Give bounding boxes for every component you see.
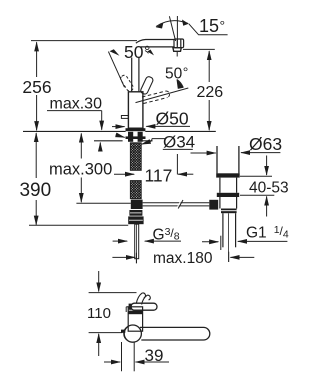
- node max.180 dimension: [112, 250, 254, 267]
- node max.300 dimension: [49, 133, 131, 203]
- check valve block: [128, 210, 143, 224]
- lever rotated positions: [108, 49, 188, 103]
- node G1 1/4 dimension: [202, 224, 289, 250]
- svg-text:39: 39: [145, 346, 164, 365]
- svg-text:390: 390: [19, 180, 51, 201]
- node 15 deg dimension: [156, 16, 228, 45]
- svg-text:Ø50: Ø50: [156, 109, 189, 129]
- faucet neck and lever vertical: [132, 58, 139, 92]
- svg-text:Ø63: Ø63: [249, 134, 282, 154]
- svg-text:117: 117: [145, 165, 173, 185]
- aerator: [173, 39, 184, 57]
- G3/8 tail: [135, 224, 139, 263]
- svg-text:50°: 50°: [124, 42, 150, 62]
- node 117 dimension: [114, 154, 193, 185]
- svg-text:15°: 15°: [199, 16, 225, 36]
- deck countertop: [23, 131, 216, 140]
- label 50 deg second: [165, 64, 188, 83]
- node 226 dimension: [183, 49, 223, 130]
- node G3/8 dimension: [113, 226, 181, 244]
- svg-text:256: 256: [22, 77, 51, 97]
- node Ø50 dimension: [112, 109, 190, 129]
- svg-text:50°: 50°: [165, 64, 188, 83]
- svg-text:max.300: max.300: [49, 160, 112, 178]
- svg-text:226: 226: [196, 84, 223, 101]
- node 256 dimension: [22, 42, 51, 130]
- side view: dim 110: [87, 271, 137, 356]
- node max.30 dimension: [47, 96, 102, 150]
- wire: [31, 40, 137, 42]
- threaded shank: [130, 143, 141, 199]
- tee and horizontal pipe: [131, 200, 210, 209]
- faucet body: [121, 92, 145, 131]
- drain pop-up waste: [209, 146, 239, 262]
- svg-text:G11/4: G11/4: [246, 224, 289, 242]
- label 50 deg first: [124, 42, 150, 62]
- node Ø34 dimension: [116, 132, 196, 151]
- svg-text:max.180: max.180: [153, 250, 213, 267]
- svg-text:Ø34: Ø34: [163, 132, 195, 151]
- svg-text:110: 110: [87, 305, 111, 322]
- svg-text:40-53: 40-53: [249, 180, 289, 197]
- spout: [136, 40, 174, 47]
- node 40-53 dimension: [240, 156, 289, 217]
- node Ø63 dimension: [191, 134, 283, 154]
- mounting hardware under deck: [126, 132, 146, 142]
- side view faucet: [121, 293, 210, 342]
- node 390 dimension: [19, 133, 128, 225]
- node 39 dimension: [104, 342, 169, 371]
